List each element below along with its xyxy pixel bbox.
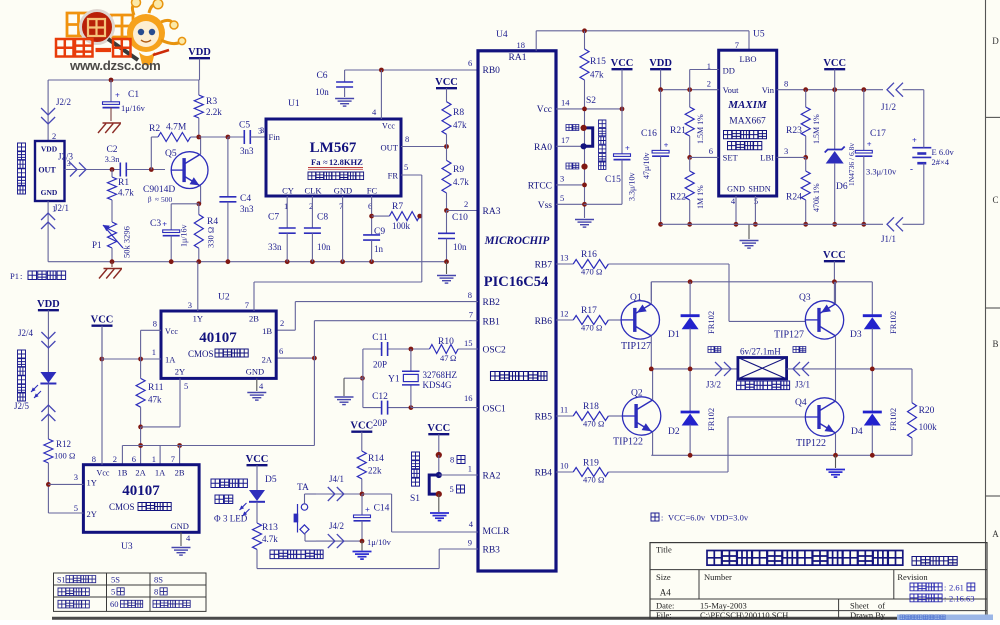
capacitor C11	[372, 333, 388, 370]
ground at U5	[740, 224, 759, 248]
resistor R18	[556, 402, 622, 429]
node emitter Q5	[171, 201, 201, 206]
svg-text:1μ/16v: 1μ/16v	[121, 103, 146, 113]
svg-text:2.61: 2.61	[949, 583, 964, 593]
svg-text:R3: R3	[206, 97, 217, 107]
svg-text:D1: D1	[668, 330, 680, 340]
svg-text:RB7: RB7	[535, 261, 553, 271]
microcontroller U4 PIC16C54	[468, 30, 571, 571]
resistor R23	[786, 90, 821, 160]
svg-text:J3/2: J3/2	[706, 380, 721, 390]
svg-text:OSC2: OSC2	[483, 346, 506, 356]
svg-text:+: +	[162, 219, 167, 229]
svg-text:U1: U1	[288, 99, 300, 109]
svg-text:J2/5: J2/5	[14, 401, 30, 411]
svg-text:22k: 22k	[368, 466, 382, 476]
svg-text:100: 100	[54, 451, 67, 461]
svg-text:VCC: VCC	[350, 421, 373, 432]
svg-text:SHDN: SHDN	[748, 185, 770, 194]
svg-text:Vcc: Vcc	[165, 327, 178, 336]
svg-text:P1: P1	[10, 271, 19, 281]
svg-text:S2: S2	[586, 96, 596, 106]
ground at S2	[575, 220, 594, 228]
svg-text:Vcc: Vcc	[382, 121, 395, 130]
wire battery ground rail	[661, 223, 924, 225]
svg-text:470: 470	[583, 475, 596, 485]
power VDD at Vout	[649, 58, 672, 90]
ground at U3	[172, 532, 191, 555]
svg-text:-: -	[910, 164, 913, 174]
svg-text:RB4: RB4	[535, 469, 553, 479]
svg-text:18: 18	[517, 40, 526, 50]
svg-text:+: +	[365, 505, 370, 515]
svg-text:1n: 1n	[374, 244, 384, 254]
svg-text:470: 470	[581, 267, 594, 277]
svg-text:3: 3	[560, 174, 564, 184]
svg-text:FC: FC	[367, 186, 378, 196]
svg-text:C9014D: C9014D	[143, 185, 175, 195]
svg-text:R8: R8	[453, 108, 464, 118]
svg-text:3: 3	[188, 300, 192, 310]
wire bridge top rail	[651, 279, 872, 315]
connector J2/5	[14, 401, 55, 421]
svg-text:GND: GND	[727, 185, 745, 194]
ground at U2	[247, 378, 266, 400]
svg-text:VCC: VCC	[427, 423, 450, 434]
power VCC at U3	[91, 315, 114, 465]
svg-text:R23: R23	[786, 126, 802, 136]
svg-text:14: 14	[561, 98, 570, 108]
svg-text:6: 6	[279, 346, 283, 356]
svg-text:≈: ≈	[323, 157, 328, 167]
svg-text:100k: 100k	[919, 422, 938, 432]
svg-text:U2: U2	[218, 293, 230, 303]
diode D2 FR102	[668, 369, 716, 455]
svg-text:5: 5	[404, 162, 408, 172]
svg-text:MAXIM: MAXIM	[727, 99, 768, 111]
svg-text:Vout: Vout	[723, 85, 740, 95]
wire OSC2 net	[363, 347, 478, 352]
svg-text:R7: R7	[392, 202, 403, 212]
svg-text:7: 7	[245, 300, 249, 310]
power VDD at emitter	[37, 299, 60, 372]
resistor R8	[442, 102, 467, 147]
svg-text:J2/4: J2/4	[18, 328, 34, 338]
connector J2/1	[41, 201, 69, 262]
svg-text:7: 7	[469, 310, 473, 320]
svg-text:C10: C10	[452, 213, 468, 223]
ground at C14	[353, 541, 372, 559]
svg-text:+: +	[664, 140, 669, 150]
svg-text:12: 12	[560, 309, 569, 319]
svg-text:8: 8	[92, 454, 96, 464]
svg-text:Q3: Q3	[799, 293, 811, 303]
connector J2/3	[58, 152, 86, 177]
resistor R3	[194, 80, 222, 137]
svg-text:VCC: VCC	[823, 250, 846, 261]
transistor Q4 TIP122	[795, 369, 844, 455]
svg-text:FR102: FR102	[706, 408, 716, 431]
node collector Q5	[196, 135, 230, 140]
transistor Q1 TIP127	[621, 282, 660, 369]
svg-text:U4: U4	[496, 30, 508, 40]
capacitor C10	[438, 211, 468, 265]
svg-text:J2/1: J2/1	[54, 203, 69, 213]
svg-text:VDD=3.0v: VDD=3.0v	[710, 513, 749, 523]
resistor R7	[372, 202, 423, 231]
power VCC at Vin	[823, 58, 846, 90]
svg-text:Size: Size	[656, 572, 671, 582]
svg-text:6v/27.1mH: 6v/27.1mH	[740, 347, 781, 357]
power VCC at R14	[350, 421, 373, 452]
zener D6	[825, 90, 856, 227]
svg-text:RA0: RA0	[534, 143, 552, 153]
power VCC at C15	[611, 58, 634, 109]
svg-text:2A: 2A	[135, 468, 146, 478]
svg-text:2: 2	[52, 131, 56, 141]
svg-text:R18: R18	[583, 402, 599, 412]
connector J2/2	[41, 80, 71, 141]
svg-text:33n: 33n	[268, 242, 282, 252]
svg-text:R11: R11	[148, 383, 164, 393]
capacitor C12	[372, 392, 388, 428]
svg-text:J1/2: J1/2	[881, 102, 896, 112]
drawing frame right border	[986, 0, 1000, 620]
svg-text:3n3: 3n3	[240, 204, 254, 214]
wire Vout net	[658, 70, 719, 93]
svg-text:47k: 47k	[590, 70, 604, 80]
svg-text:VCC: VCC	[246, 454, 269, 465]
svg-text:470: 470	[583, 419, 596, 429]
wire 2Y link	[141, 378, 180, 427]
svg-text:Vin: Vin	[762, 85, 775, 95]
svg-text:RB0: RB0	[483, 66, 501, 76]
svg-text:2.16.63: 2.16.63	[949, 594, 975, 604]
svg-text:Sheet: Sheet	[850, 600, 870, 610]
svg-text:RTCC: RTCC	[528, 182, 552, 192]
resistor R13	[253, 502, 279, 569]
wire Vin net	[777, 87, 924, 145]
svg-text:2Y: 2Y	[175, 367, 185, 377]
svg-text:4.7M: 4.7M	[166, 123, 187, 133]
svg-text:10n: 10n	[317, 242, 331, 252]
svg-text:C17: C17	[870, 129, 886, 139]
svg-text:2Y: 2Y	[87, 509, 97, 519]
connector J1/2	[881, 83, 903, 112]
svg-text:Fin: Fin	[269, 132, 281, 142]
svg-text::: :	[661, 514, 663, 523]
capacitor C3	[150, 204, 189, 262]
svg-text:VDD: VDD	[649, 58, 672, 69]
svg-text:R14: R14	[368, 454, 384, 464]
capacitor C9	[363, 196, 385, 262]
connector J3/1	[787, 347, 812, 390]
svg-text:MCLR: MCLR	[483, 527, 511, 537]
svg-text:R13: R13	[262, 523, 278, 533]
svg-text:3n3: 3n3	[240, 146, 254, 156]
resistor R12	[44, 439, 75, 513]
resistor R24	[786, 157, 821, 226]
svg-text:5: 5	[74, 503, 78, 513]
revision text	[910, 583, 975, 604]
svg-text:100k: 100k	[392, 221, 411, 231]
table S1 options	[54, 573, 207, 611]
svg-text:+: +	[867, 139, 872, 149]
ground at S1	[430, 494, 449, 520]
title block	[650, 543, 987, 620]
resistor R19	[556, 417, 805, 485]
label IR receiver vertical	[18, 143, 26, 194]
svg-text:SET: SET	[723, 153, 739, 163]
capacitor C6	[315, 70, 353, 97]
svg-text:J2/2: J2/2	[56, 97, 71, 107]
svg-text:B: B	[992, 339, 998, 349]
svg-text:Y1: Y1	[388, 375, 400, 385]
svg-text:VCC: VCC	[435, 77, 458, 88]
svg-text:16: 16	[464, 393, 473, 403]
svg-text:FR102: FR102	[706, 311, 716, 334]
power VCC at bridge	[823, 250, 846, 282]
power VCC at D5	[246, 454, 269, 490]
svg-text:CMOS: CMOS	[109, 502, 135, 512]
svg-text:470: 470	[581, 323, 594, 333]
svg-text:1Y: 1Y	[193, 314, 203, 324]
svg-text:4.7k: 4.7k	[262, 534, 278, 544]
svg-text:VDD: VDD	[37, 299, 60, 310]
svg-text:9: 9	[468, 538, 472, 548]
capacitor C5	[228, 121, 266, 157]
svg-text:RB6: RB6	[535, 317, 553, 327]
svg-text:RA2: RA2	[483, 472, 501, 482]
connector J4/1	[316, 474, 362, 501]
svg-text:20P: 20P	[373, 360, 387, 370]
svg-text:GND: GND	[41, 188, 58, 197]
connector J4/2	[316, 521, 362, 548]
svg-text:1B: 1B	[117, 468, 127, 478]
wire RB3 net	[257, 549, 478, 569]
svg-text:J1/1: J1/1	[881, 234, 896, 244]
svg-text:Ω: Ω	[598, 475, 604, 485]
svg-text:Q2: Q2	[631, 389, 643, 399]
resistor R10	[430, 337, 473, 363]
svg-text:C7: C7	[268, 213, 279, 223]
capacitor C4	[219, 137, 254, 262]
diode D3 FR102	[850, 311, 898, 369]
driver U3 40107	[74, 454, 199, 552]
capacitor C2	[105, 145, 127, 177]
transistor Q2 TIP122	[613, 369, 661, 455]
svg-text:5: 5	[111, 587, 115, 597]
svg-text:≈: ≈	[155, 196, 159, 204]
svg-text:C12: C12	[372, 392, 388, 402]
svg-text:60: 60	[110, 599, 119, 609]
svg-text:FR: FR	[388, 171, 399, 181]
svg-text:12.8KHZ: 12.8KHZ	[329, 157, 363, 167]
svg-text:2A: 2A	[262, 355, 273, 365]
svg-text:β: β	[148, 196, 152, 204]
svg-text:CMOS: CMOS	[188, 349, 214, 359]
resistor R11	[136, 359, 164, 429]
svg-text:RA3: RA3	[483, 207, 501, 217]
LED D5 low voltage indicator	[240, 475, 277, 516]
svg-text:Vcc: Vcc	[537, 105, 552, 115]
svg-text:4.7k: 4.7k	[453, 177, 469, 187]
wire RA1 pin18 net	[536, 28, 749, 50]
IR receiver module U-recv	[35, 131, 71, 214]
capacitor C7	[268, 196, 296, 262]
svg-text:2B: 2B	[175, 468, 185, 478]
svg-text:www.dzsc.com: www.dzsc.com	[69, 58, 160, 73]
svg-text:470k 1%: 470k 1%	[812, 183, 821, 212]
wire OSC1 net	[363, 349, 478, 410]
svg-text:47μ/10v: 47μ/10v	[642, 152, 651, 179]
crystal Y1	[388, 349, 457, 408]
svg-text:3.3μ/10v: 3.3μ/10v	[628, 172, 637, 201]
svg-text:C9: C9	[374, 227, 385, 237]
wire RA3 stub	[0, 0, 1, 1]
svg-text:S1: S1	[57, 576, 65, 585]
svg-text:CLK: CLK	[305, 186, 323, 196]
svg-text:D: D	[992, 36, 999, 46]
connector J3/2	[706, 347, 738, 390]
svg-text:GND: GND	[171, 521, 189, 531]
regulator U5 MAX667	[707, 30, 789, 207]
power VCC at S1	[427, 423, 450, 455]
resistor R16	[556, 250, 805, 321]
capacitor C17	[855, 90, 897, 227]
svg-text:Drawn By: Drawn By	[850, 610, 886, 620]
svg-text:5: 5	[450, 484, 454, 494]
svg-text:P1: P1	[92, 240, 102, 250]
svg-text:TIP122: TIP122	[613, 437, 643, 448]
wire OUT to base	[65, 167, 166, 172]
svg-text:C16: C16	[641, 129, 657, 139]
svg-text:8: 8	[153, 319, 157, 329]
svg-text:E 6.0v: E 6.0v	[932, 147, 955, 157]
svg-text:+: +	[625, 143, 630, 153]
svg-text:R20: R20	[919, 406, 935, 416]
svg-text:C14: C14	[374, 504, 390, 514]
wire to 1Y 2Y U3	[48, 484, 83, 513]
svg-text:U3: U3	[121, 542, 133, 552]
svg-text:8S: 8S	[154, 575, 163, 585]
wire bridge mid rail left	[649, 367, 710, 372]
wire LBI net	[777, 156, 806, 158]
svg-text:1: 1	[468, 464, 472, 474]
svg-text::: :	[20, 271, 22, 281]
svg-text:MAX667: MAX667	[729, 117, 766, 127]
svg-text:2B: 2B	[249, 314, 259, 324]
svg-text:TA: TA	[297, 483, 309, 493]
svg-text:C15: C15	[605, 175, 621, 185]
svg-text:VDD: VDD	[188, 47, 211, 58]
power VCC at U2	[99, 328, 161, 362]
capacitor C8	[304, 196, 331, 262]
svg-text:Q5: Q5	[165, 149, 177, 159]
svg-text:1μ/10v: 1μ/10v	[367, 537, 392, 547]
svg-text:10n: 10n	[315, 87, 329, 97]
svg-text:R24: R24	[786, 193, 802, 203]
svg-text:LBI: LBI	[760, 153, 774, 163]
ground at C10	[437, 262, 456, 283]
resistor R4	[194, 204, 218, 262]
svg-text:5: 5	[560, 193, 564, 203]
svg-text:VCC: VCC	[91, 315, 114, 326]
diode D1 FR102	[668, 282, 716, 369]
svg-text:OSC1: OSC1	[483, 405, 506, 415]
svg-text:8: 8	[154, 587, 158, 597]
svg-text:R12: R12	[56, 439, 71, 449]
svg-text:KDS4G: KDS4G	[423, 380, 453, 390]
svg-text:D3: D3	[850, 330, 862, 340]
svg-text:TIP122: TIP122	[796, 438, 826, 449]
solenoid valve	[737, 347, 790, 390]
svg-text:11: 11	[560, 405, 568, 415]
svg-text:15-May-2003: 15-May-2003	[700, 600, 747, 610]
drawing frame bottom border	[52, 617, 987, 620]
svg-text:C: C	[992, 195, 998, 205]
svg-text:Ω: Ω	[450, 353, 456, 363]
wire RA2 net	[439, 474, 478, 476]
svg-text:3: 3	[784, 146, 788, 156]
svg-text:1A: 1A	[165, 355, 176, 365]
wire 2B to FR net	[254, 282, 422, 311]
resistor R2	[149, 123, 199, 170]
svg-text:R17: R17	[581, 306, 597, 316]
svg-text:2: 2	[280, 318, 284, 328]
wire RB1 net	[276, 321, 478, 446]
wire bridge bottom rail	[651, 453, 912, 458]
svg-text:A4: A4	[660, 588, 671, 598]
svg-text:20P: 20P	[373, 418, 387, 428]
power VCC at R8	[435, 77, 458, 102]
op-amp U1 LM567	[260, 99, 409, 211]
svg-text:Title: Title	[656, 545, 672, 555]
svg-text:2.2k: 2.2k	[206, 107, 222, 117]
power VDD top-left	[188, 47, 211, 80]
svg-text:File:: File:	[656, 610, 672, 620]
svg-text:1μ/16v: 1μ/16v	[180, 224, 189, 247]
svg-text:RB2: RB2	[483, 298, 501, 308]
svg-text:40107: 40107	[199, 330, 237, 346]
connector J2/4	[18, 328, 55, 348]
svg-text:J2/3: J2/3	[58, 152, 74, 162]
svg-text:47k: 47k	[148, 395, 162, 405]
resistor R15	[580, 31, 606, 80]
svg-text:3: 3	[260, 125, 264, 135]
svg-text:1M 1%: 1M 1%	[696, 185, 705, 209]
svg-text:RB5: RB5	[535, 413, 553, 423]
svg-text:Revision: Revision	[897, 572, 928, 582]
svg-text:+: +	[115, 90, 120, 100]
svg-text:C1: C1	[128, 90, 139, 100]
svg-text:4.7k: 4.7k	[118, 188, 134, 198]
svg-text:C5: C5	[239, 121, 250, 131]
svg-text:Date:: Date:	[656, 600, 674, 610]
svg-text:VCC=6.0v: VCC=6.0v	[668, 513, 706, 523]
ground at Y1	[335, 378, 363, 404]
pushbutton TA	[294, 483, 316, 541]
svg-text:1: 1	[152, 454, 156, 464]
resistor R20	[908, 403, 938, 456]
svg-text:VCC: VCC	[823, 58, 846, 69]
svg-text:U5: U5	[753, 30, 765, 40]
svg-text:R9: R9	[453, 165, 464, 175]
svg-text:FR102: FR102	[888, 408, 898, 431]
wire SET net	[690, 156, 719, 158]
capacitor C1	[103, 80, 146, 121]
svg-text:Q4: Q4	[795, 398, 807, 408]
